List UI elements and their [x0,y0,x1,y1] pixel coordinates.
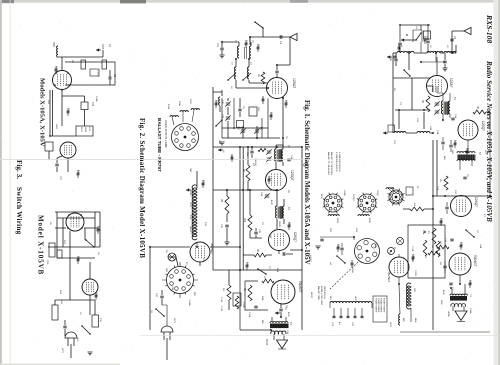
fig3a tube V1 [53,71,72,90]
svg-text:PRI: PRI [329,296,331,300]
fig1 osc extra caps [398,43,401,45]
svg-text:RXS-108: RXS-108 [485,14,494,43]
svg-text:C4C: C4C [269,234,271,239]
fig1 resistor R2 [426,96,430,112]
fig1 filter rect [408,225,445,278]
fig1 bottom bus [400,331,490,333]
fig1 pilot lamp [396,237,403,244]
svg-text:R12: R12 [243,218,245,223]
scan crease line 2 [140,334,500,337]
fig1 cap C13 [450,239,453,241]
fig2 output rect [245,281,268,310]
fig3b ground [87,352,92,355]
fig1 osc coil A [394,132,406,134]
svg-text:BALLAST TUBE - RR797: BALLAST TUBE - RR797 [157,118,162,172]
fig1 resistor R8 [428,251,440,255]
fig1 tube 12SQ7 first [458,120,478,140]
svg-text:12SQ7: 12SQ7 [474,197,478,207]
fig1 rect tube 35Z5GT [389,257,409,277]
svg-text:50L6GT: 50L6GT [298,281,302,293]
svg-text:Radio Service Notes on X-105A,: Radio Service Notes on X-105A, X-105V, a… [485,60,493,222]
fig2 power wires [162,243,197,326]
fig2 tube 12SA7 [267,78,288,99]
top scan edge [0,0,500,3]
fig2 resistor R4 [225,196,229,214]
svg-text:POWER TRANSF: POWER TRANSF [375,298,378,313]
svg-text:L1A: L1A [55,66,58,70]
svg-text:12SQ7: 12SQ7 [309,255,311,263]
fig1 T1 wires [437,86,450,120]
svg-text:C17B: C17B [414,270,416,276]
svg-text:R?: R? [416,186,418,188]
fig1 switch lower [404,70,410,76]
fig1 wire osc [421,42,445,62]
fig2 speaker [277,340,288,349]
fig3b cap box C2 [57,250,62,258]
fig2 switch S3 [156,309,164,316]
svg-text:GRN: GRN [165,268,167,273]
fig3b switch S4 [82,326,90,334]
svg-text:GRN: GRN [413,288,415,293]
svg-text:S1A: S1A [479,244,482,249]
fig3a wiring box [65,62,115,85]
fig1 small box [406,187,413,195]
fig2 grid cap [275,71,278,73]
fig2 cap C20 [220,48,223,50]
svg-text:C17B: C17B [220,306,222,312]
fig1 resistor R7v [432,228,436,244]
fig2 octal socket [167,267,194,294]
svg-text:Models X-105A, X-105V: Models X-105A, X-105V [39,78,46,147]
fig1 resistor R4b [410,207,424,211]
fig2 resistor R7 [262,279,274,283]
svg-text:GRN: GRN [351,268,353,273]
fig2 wire y270 [213,147,302,270]
fig1 right rail [489,125,491,196]
svg-text:C19A: C19A [188,300,191,306]
fig2 socket stubs [162,262,198,298]
svg-text:C17A: C17A [411,246,414,252]
fig3a osc coil [57,46,58,57]
svg-text:C16: C16 [91,102,93,107]
fig3a bottom wires [50,135,76,137]
fig2 resistor R9 [227,285,231,300]
fig2 cap C15 [225,225,228,227]
svg-text:BLUE: BLUE [287,312,289,317]
fig3a label box [90,69,99,76]
fig2 T3 output transformer [270,324,289,329]
fig1 T3 wires [452,275,465,311]
svg-text:12SQ7: 12SQ7 [376,190,378,197]
fig2 ground lower [219,142,224,145]
fig2 osc coil L3 [235,67,236,79]
svg-text:R7A: R7A [276,268,279,273]
fig2 plug [161,326,173,332]
svg-text:GRN: GRN [451,150,453,155]
fig1 osc extra box [424,31,431,39]
fig2 switch S2b [258,269,266,274]
fig1 caps mid [441,142,444,144]
fig2 wires coils to tube [236,59,268,88]
fig1 tube stub [427,86,434,92]
fig1 T1 trimmers [435,103,439,105]
svg-text:12SQ7: 12SQ7 [293,232,297,242]
fig1 bus wire 196 [433,140,491,330]
fig2 antenna [290,33,297,40]
svg-text:OSC: OSC [257,107,259,112]
svg-text:BLK: BLK [443,156,445,161]
svg-text:12SA7: 12SA7 [292,78,296,88]
fig3b tube V3 [66,213,84,231]
svg-text:50L6GT: 50L6GT [189,226,191,234]
svg-text:C2A: C2A [245,40,248,45]
svg-text:BRN: BRN [414,318,416,323]
fig1 T2 wires [460,140,472,170]
scan crease line [0,158,308,161]
power transformer taps [334,308,362,316]
fig2 resistor R1 [261,72,265,84]
svg-text:POWER TRANSF: POWER TRANSF [382,298,385,313]
fig3a lower tube V2 [60,142,76,158]
right scan edge [494,0,500,365]
fig1 coil row L3 [444,52,456,53]
fig2 rectifier 35Z5GT [190,242,210,262]
svg-text:USES 40-50 W. LAMP: USES 40-50 W. LAMP [164,120,168,148]
fig2 wire ballast [196,171,198,216]
svg-text:12SQ7: 12SQ7 [290,170,294,181]
fig2 wire ant row [222,37,251,46]
fig3a wire C16 [62,96,85,126]
fig3a component box 1 [81,60,86,69]
fig2 tube top wire [277,37,290,65]
svg-text:POWER TRANSF: POWER TRANSF [380,298,383,313]
fig1 cap C6 [463,177,466,179]
socket dashed pointer [330,262,358,289]
fig2 tube 50L6GT [271,280,295,304]
fig1 osc switch box [413,30,422,42]
fig3b cap box C [49,243,55,257]
svg-text:R15B: R15B [368,218,370,223]
svg-text:BALLAST OF THE MODEL: BALLAST OF THE MODEL [330,152,333,175]
svg-text:SEC: SEC [354,296,356,301]
svg-text:12SQ7: 12SQ7 [189,202,191,208]
scattered tiny labels [47,26,486,335]
svg-text:MODEL X-105V ONLY: MODEL X-105V ONLY [320,286,322,306]
svg-text:B2607: B2607 [310,292,312,299]
fig2 cap C1 [280,35,282,39]
fig2 ant coil L1 [238,46,239,58]
fig1 antenna [464,27,471,34]
fig2 side branch [213,90,222,96]
svg-text:117V: 117V [173,318,175,323]
fig2 cap C17A [254,306,257,308]
svg-text:OSC: OSC [52,42,55,47]
fig2 B+ double bus [240,147,243,270]
svg-text:R10B: R10B [178,101,180,107]
fig1 cap C2B [394,59,397,61]
fig1 tube 12SQ7 second [451,196,472,217]
svg-text:SPKR: SPKR [265,339,267,346]
fig3a cap C5 [109,76,111,79]
fig2 cap C8 [238,109,241,111]
svg-text:35Z5GT: 35Z5GT [210,243,214,254]
fig3a antenna lead arrow [96,49,101,51]
fig2 T1 trimmers [267,151,271,153]
fig1 ballast coil2 [399,314,400,325]
fig2 T2 transformer [278,207,284,219]
svg-text:B15x: B15x [320,194,322,198]
fig3b tube V3 pins [68,214,70,216]
fig1 T1 transformer [444,102,450,115]
svg-text:BLUE: BLUE [270,200,272,205]
svg-text:A.C.: A.C. [76,338,79,343]
fig1 cap C4A [451,118,454,120]
fig1 osc coil arrow [383,132,388,134]
bottom scan edge [0,364,120,365]
svg-text:R8A: R8A [261,296,264,301]
fig1 ballast coil [407,283,412,309]
fig1 cap C2C [443,61,446,63]
svg-text:TAP: TAP [189,168,192,173]
fig1 mini socket coils [386,188,394,189]
fig3a tube pins [55,72,57,74]
fig2 osc coil L4 [248,67,250,79]
socket switch [337,256,345,263]
svg-text:C4A: C4A [290,155,293,160]
fig3a lower wires [49,151,68,172]
fig1 resistor R5 [473,110,486,114]
svg-text:POWER TRANSF: POWER TRANSF [377,298,380,313]
svg-text:GREEN: GREEN [278,221,280,228]
svg-text:R10A: R10A [167,104,170,110]
svg-text:BALLAST TUBE: BALLAST TUBE [317,286,320,301]
svg-text:12SQ7: 12SQ7 [189,214,191,220]
fig2 trimmer C5A [265,195,269,197]
svg-text:Model X-105VB: Model X-105VB [37,215,45,275]
fig2 resistor R12 [248,215,252,231]
fig1 coil row L1 [397,51,414,53]
fig3a lower cap [55,164,58,166]
fig1 cap C1 [450,39,453,41]
fig2 T1 transformer [277,150,283,162]
svg-text:C18A: C18A [469,308,472,314]
fig2 switch S2 mid [228,73,236,80]
fig2 cap C18a [254,232,257,234]
fig2 cap C9 [279,309,282,311]
svg-text:BALLAST OF THE MODEL: BALLAST OF THE MODEL [327,152,330,175]
fig3a component box 2 [102,60,107,69]
svg-text:R15A: R15A [336,218,339,223]
fig2 ballast socket [172,124,199,151]
svg-text:A.C.: A.C. [338,322,341,326]
svg-text:C4A: C4A [454,114,457,119]
fig3a wire C5 [109,70,111,85]
svg-text:SPKR: SPKR [447,311,449,317]
svg-text:L2A: L2A [429,126,432,130]
fig3a bus wires [50,90,62,136]
fig3b wires lower [55,262,95,315]
socket wire top [320,237,354,240]
fig3b line plug [65,332,77,338]
fig2 trimmer C23 [241,130,245,132]
fig1 box C22 [388,125,395,132]
fig2 coil core [245,47,247,59]
fig2 T3 arrow [275,312,280,314]
svg-text:12SQ7: 12SQ7 [481,121,485,131]
svg-text:C2B: C2B [389,57,391,62]
fig2 T3 wires [272,317,286,340]
svg-text:C2D: C2D [221,100,223,105]
svg-text:C5A: C5A [260,192,263,197]
fig2 tube 12SQ7 first [266,170,287,191]
socket 12SA7 layout [324,194,342,212]
fig2 ballast socket coils [170,116,178,117]
fig1 tube 12SA7 [427,76,448,97]
socket coil b [358,215,369,216]
fig1 coil row L2 [427,51,443,53]
socket 12SQ7 layout [358,194,376,212]
fig1 resistor R7h [437,245,449,249]
svg-text:X-105A USES 40-50 W.: X-105A USES 40-50 W. [338,152,341,172]
fig2 bottom bus [240,270,271,330]
fig3b tube V4 [82,279,98,295]
svg-text:R9A: R9A [422,230,425,235]
fig2 wires lower rect [228,98,283,147]
svg-text:S3A: S3A [171,286,174,291]
svg-text:12SA7: 12SA7 [343,190,346,197]
svg-text:Fig. 3.: Fig. 3. [15,160,23,179]
svg-text:35Z5GT: 35Z5GT [387,272,391,283]
fig2 cap C19 [160,296,163,298]
svg-text:RED: RED [440,300,442,305]
fig1 power wires [399,254,411,322]
fig1 mini socket [389,190,403,204]
fig2 wire right rail [290,147,302,330]
fig2 pilot lamp [168,253,176,261]
fig1 resistor R9 [436,241,440,257]
fig2 ant coil L2 [250,46,251,58]
svg-text:LIGHT: LIGHT [84,127,86,133]
fig1 switch S1b [466,230,474,237]
power transformer coil [330,301,372,303]
svg-text:R10C: R10C [189,99,191,105]
fig3b box C31 [92,315,99,327]
fig3a wire top [58,50,103,70]
fig2 resistor R6 [254,253,266,257]
fig2 wires T1 [276,145,283,169]
svg-text:117V: 117V [61,348,63,353]
fig2 resistor R9b [235,296,239,309]
main socket octal [355,239,380,264]
fig2 lower rect [222,98,280,138]
svg-text:12SA7: 12SA7 [305,160,308,167]
left scan edge [0,0,2,365]
fig1 coil row wire [393,45,456,53]
fig2 lower rect extra [222,98,268,138]
fig2 trimmer C2D [226,103,230,105]
svg-text:C3B: C3B [221,114,223,119]
svg-text:SW1: SW1 [55,124,57,130]
fig1 arrow C10 [387,56,392,58]
svg-text:117V: 117V [389,322,391,327]
svg-text:C17B: C17B [242,302,244,308]
socket coil a [328,215,339,216]
fig1 osc extra wires [400,25,430,53]
svg-text:USES 40-50 W.: USES 40-50 W. [323,286,325,300]
fig1 cap C9a [443,266,446,268]
fig2 cap top out [283,252,285,255]
fig2 T2 wires [277,190,284,229]
fig3a cap C16 box [81,102,88,110]
fig2 switch S1 top [255,22,263,28]
svg-text:C9A: C9A [469,280,472,285]
power transformer note [373,296,387,322]
fig1 osc lower wires [395,110,430,129]
fig2 trimmer C3 [255,130,259,132]
svg-text:X-105A USES 40-50 W.: X-105A USES 40-50 W. [335,152,338,172]
fig1 T2 transformer [458,155,475,161]
svg-text:C17A: C17A [220,297,223,303]
svg-text:Switch Wiring: Switch Wiring [15,187,23,235]
fig2 ballast coil [192,185,197,240]
fig3b wire grid [48,212,100,300]
fig2 resistor R2 [246,165,250,181]
svg-text:50L6GT: 50L6GT [473,255,477,267]
extra small capacitors [55,39,472,297]
fig3b resistor box [52,305,58,320]
svg-text:12SQ7: 12SQ7 [352,194,354,202]
svg-text:P.L.: P.L. [165,250,167,254]
fig2 bus wire mid [213,87,302,147]
svg-text:Fig. 2. Schematic Diagram Mo: Fig. 2. Schematic Diagram Model X-105VB [138,118,146,258]
fig2 cap C4A [287,159,290,161]
fig1 arrow left [401,39,407,41]
fig3b cap [63,326,66,328]
fig1 cap in [445,207,448,209]
fig1 tube 50L6GT [449,253,471,275]
fig1 resistor R9b [423,240,427,256]
extra wire stubs [56,36,470,300]
svg-text:C17A: C17A [248,312,251,318]
fig1 cap C9b [449,283,452,285]
fig1 speaker [455,311,467,321]
svg-text:C16A: C16A [95,96,98,102]
fig1 T3 output transformer [450,296,467,301]
fig2 wires rect [150,247,240,330]
fig2 box mid [249,107,257,116]
svg-text:PILOT: PILOT [80,127,82,133]
fig3b switch S [86,240,94,247]
svg-text:C8A: C8A [270,112,273,117]
fig1 osc rect [393,53,430,133]
svg-text:12SA7: 12SA7 [449,78,453,88]
fig1 resistor R5b [444,176,448,190]
fig2 cap C16b [250,151,253,153]
svg-text:BLUE: BLUE [442,290,444,295]
fig1 osc coil B [417,131,430,133]
fig3a lower box VC [45,142,53,151]
fuse F1 [388,248,395,255]
fig2 ballast arrow [186,189,191,191]
svg-text:1.7,L.V: 1.7,L.V [96,70,98,77]
fig2 resistor R8 [248,285,252,301]
svg-text:Fig. 1. Schematic Diagram Mo: Fig. 1. Schematic Diagram Models X-105A … [303,100,311,265]
svg-text:ANT.: ANT. [101,44,105,50]
svg-text:S2B: S2B [218,140,220,145]
fig2 res small [258,148,266,151]
fig2 trimmer C3B [226,117,230,119]
svg-text:C5B: C5B [436,186,438,191]
